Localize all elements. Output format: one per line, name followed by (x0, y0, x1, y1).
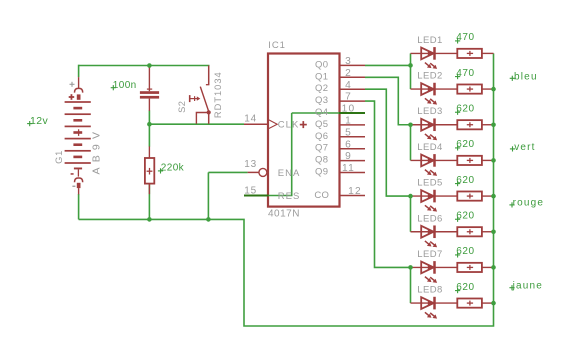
svg-text:CO: CO (314, 190, 329, 201)
svg-text:ENA: ENA (278, 168, 301, 179)
svg-text:3: 3 (345, 56, 352, 67)
svg-text:620: 620 (456, 282, 475, 293)
svg-text:9: 9 (345, 151, 352, 162)
svg-text:LED4: LED4 (417, 142, 442, 153)
svg-text:IC1: IC1 (268, 40, 285, 51)
svg-text:620: 620 (456, 104, 475, 115)
svg-text:10: 10 (342, 104, 356, 115)
svg-text:Q2: Q2 (315, 83, 328, 94)
svg-text:620: 620 (456, 246, 475, 257)
svg-text:LED8: LED8 (417, 285, 442, 296)
svg-text:Q0: Q0 (315, 59, 328, 70)
svg-text:jaune: jaune (512, 281, 543, 292)
svg-text:11: 11 (342, 163, 355, 174)
svg-text:2: 2 (345, 68, 352, 79)
svg-text:rouge: rouge (513, 198, 545, 209)
svg-text:LED3: LED3 (417, 106, 442, 117)
svg-text:4: 4 (345, 80, 352, 91)
svg-text:Q6: Q6 (315, 131, 328, 142)
svg-text:220k: 220k (161, 162, 185, 173)
svg-text:vert: vert (514, 142, 535, 153)
svg-text:CLK: CLK (278, 120, 299, 131)
svg-text:5: 5 (345, 127, 352, 138)
svg-text:Q1: Q1 (315, 71, 328, 82)
svg-text:LED2: LED2 (417, 71, 442, 82)
svg-text:Q5: Q5 (315, 119, 328, 130)
svg-text:Q9: Q9 (315, 167, 328, 178)
svg-text:100n: 100n (113, 80, 137, 91)
svg-text:RDT1034: RDT1034 (213, 71, 223, 118)
svg-text:14: 14 (244, 113, 257, 124)
svg-text:Q8: Q8 (315, 155, 328, 166)
svg-text:12v: 12v (30, 115, 48, 127)
svg-text:470: 470 (456, 32, 475, 43)
svg-text:Q3: Q3 (315, 95, 328, 106)
svg-text:470: 470 (456, 68, 475, 79)
svg-text:bleu: bleu (514, 71, 538, 82)
svg-text:AB9V: AB9V (91, 127, 103, 175)
svg-text:7: 7 (345, 92, 352, 103)
svg-text:620: 620 (456, 175, 475, 186)
svg-text:12: 12 (348, 186, 362, 197)
svg-text:Q4: Q4 (315, 107, 328, 118)
svg-text:6: 6 (345, 139, 352, 150)
svg-text:4017N: 4017N (268, 208, 300, 219)
svg-text:LED5: LED5 (417, 178, 442, 189)
svg-text:LED1: LED1 (417, 35, 442, 46)
svg-text:620: 620 (456, 211, 475, 222)
svg-text:G1: G1 (54, 150, 64, 164)
svg-text:15: 15 (244, 186, 257, 197)
svg-text:S2: S2 (177, 101, 187, 113)
svg-text:Q7: Q7 (315, 143, 328, 154)
svg-text:1: 1 (345, 116, 352, 127)
svg-text:13: 13 (244, 159, 257, 170)
svg-text:LED7: LED7 (417, 249, 442, 260)
svg-text:RES: RES (278, 191, 301, 202)
svg-text:LED6: LED6 (417, 213, 442, 224)
svg-text:620: 620 (456, 139, 475, 150)
